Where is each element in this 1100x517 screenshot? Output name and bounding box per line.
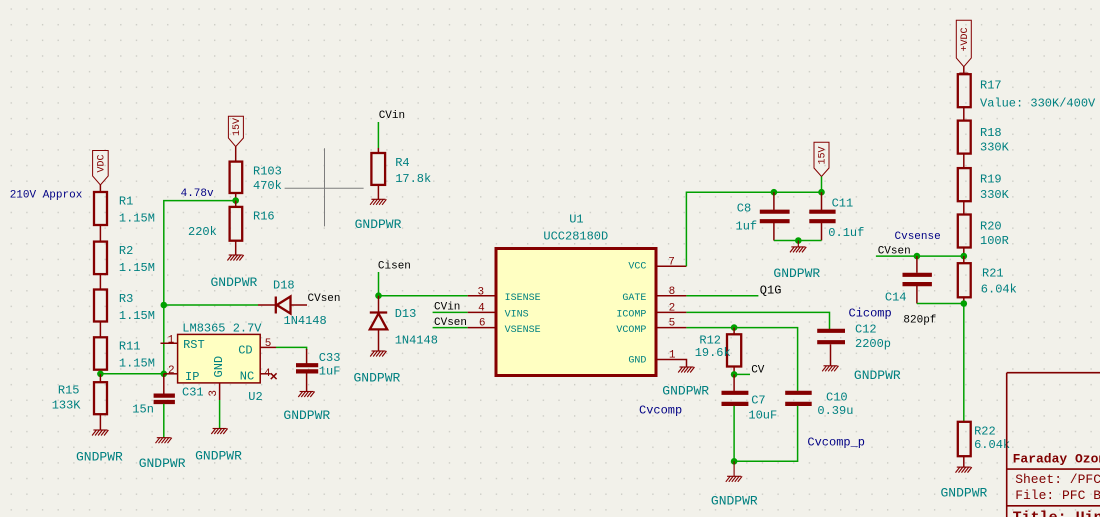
svg-text:R18: R18: [980, 126, 1002, 140]
U1 pin 6 VSENSE: [433, 317, 541, 336]
svg-text:R1: R1: [119, 195, 133, 209]
svg-text:File: PFC Board.sch: File: PFC Board.sch: [1015, 488, 1100, 503]
svg-text:CVin: CVin: [434, 301, 460, 313]
wire C8/C11 bottoms: [774, 240, 822, 242]
svg-text:R21: R21: [982, 267, 1004, 281]
resistor R16: [188, 201, 275, 255]
junction ground C8/C11: [795, 237, 802, 244]
svg-text:133K: 133K: [52, 399, 82, 413]
svg-text:C7: C7: [751, 393, 765, 407]
svg-text:GNDPWR: GNDPWR: [211, 275, 258, 290]
junction C8 top: [771, 189, 778, 196]
wire Cisen to D13/ISENSE: [378, 272, 380, 296]
svg-text:10uF: 10uF: [748, 408, 777, 422]
svg-text:Cvsense: Cvsense: [895, 231, 941, 243]
capacitor C31 15n: [132, 374, 203, 438]
svg-text:R4: R4: [395, 156, 409, 170]
svg-text:Sheet: /PFC Boost/: Sheet: /PFC Boost/: [1015, 472, 1100, 487]
resistor R12: [695, 328, 742, 375]
svg-text:UCC28180D: UCC28180D: [543, 229, 608, 243]
svg-text:1.15M: 1.15M: [119, 309, 155, 323]
U1 pin 3 ISENSE: [468, 286, 541, 304]
U2 pin 3 GND: [208, 356, 226, 429]
svg-text:NC: NC: [240, 370, 254, 384]
svg-text:ICOMP: ICOMP: [616, 310, 646, 321]
U2 pin 1 RST: [161, 335, 205, 353]
svg-text:5: 5: [669, 317, 676, 329]
svg-text:Cicomp: Cicomp: [849, 307, 892, 321]
resistor R20: [958, 215, 1009, 257]
svg-text:VCC: VCC: [628, 262, 646, 273]
svg-text:GNDPWR: GNDPWR: [854, 368, 901, 383]
svg-text:1.15M: 1.15M: [119, 261, 155, 275]
svg-text:1.15M: 1.15M: [119, 357, 155, 371]
svg-text:210V Approx: 210V Approx: [10, 190, 83, 202]
svg-text:1: 1: [669, 350, 676, 362]
svg-text:R2: R2: [119, 244, 133, 258]
svg-text:5: 5: [265, 338, 272, 350]
svg-text:Q1G: Q1G: [760, 284, 782, 298]
resistor R2: [94, 242, 155, 290]
U1 pin 5 VCOMP: [616, 317, 686, 336]
svg-text:220k: 220k: [188, 225, 217, 239]
svg-text:R11: R11: [119, 340, 141, 354]
svg-text:Cvcomp_p: Cvcomp_p: [807, 436, 865, 450]
ground GNDPWR under U2: [211, 429, 227, 435]
wire CVin to R4: [377, 122, 379, 148]
junction R103/R16: [232, 197, 239, 204]
svg-text:C33: C33: [319, 351, 341, 365]
svg-text:100R: 100R: [980, 234, 1009, 248]
ground GNDPWR under R16: [227, 255, 243, 261]
wire VCOMP to C10: [686, 328, 797, 391]
svg-text:CVin: CVin: [379, 110, 405, 122]
svg-text:GNDPWR: GNDPWR: [711, 494, 758, 509]
svg-text:330K: 330K: [980, 141, 1010, 155]
svg-text:3: 3: [478, 286, 485, 298]
resistor R18: [958, 121, 1010, 169]
wire CVsen net: [876, 255, 964, 257]
svg-text:GNDPWR: GNDPWR: [139, 456, 186, 471]
U1 pin 8 GATE: [622, 286, 686, 304]
svg-text:GND: GND: [628, 356, 646, 367]
svg-text:15V: 15V: [818, 146, 829, 164]
ground GNDPWR under C8/C11: [790, 241, 806, 253]
resistor R3: [94, 290, 155, 338]
svg-text:1N4148: 1N4148: [284, 314, 327, 328]
junction VCOMP/R12: [731, 324, 738, 331]
wire 15V stem: [821, 177, 823, 193]
svg-text:VSENSE: VSENSE: [505, 325, 541, 336]
svg-text:R20: R20: [980, 220, 1002, 234]
diode D18 1N4148: [258, 279, 327, 329]
svg-text:7: 7: [668, 256, 675, 268]
U2 pin 5 CD: [238, 338, 276, 357]
svg-text:17.8k: 17.8k: [395, 172, 431, 186]
svg-text:Cvcomp: Cvcomp: [639, 403, 682, 417]
capacitor C33 1uF: [296, 349, 340, 392]
junction at RST row: [161, 302, 168, 309]
wire CD to C33: [276, 347, 307, 350]
ground GNDPWR under D13: [370, 351, 386, 357]
svg-text:6.04k: 6.04k: [981, 283, 1017, 297]
svg-text:R16: R16: [253, 210, 275, 224]
ground GNDPWR under C33: [298, 392, 314, 398]
svg-text:GND: GND: [212, 356, 226, 378]
wire 4.78v node vertical: [164, 201, 236, 374]
U1 pin 4 VINS: [433, 301, 529, 320]
svg-text:D18: D18: [273, 279, 295, 293]
U2 pin 4 NC with no-connect X: [240, 368, 277, 384]
capacitor C7 10uF: [722, 374, 778, 461]
svg-text:D13: D13: [395, 307, 417, 321]
resistor R1: [94, 185, 155, 242]
svg-text:2: 2: [669, 302, 676, 314]
svg-text:GNDPWR: GNDPWR: [283, 408, 330, 423]
svg-text:R22: R22: [974, 424, 996, 438]
resistor R11: [94, 337, 155, 374]
svg-text:Title: Uin: Title: Uin: [1013, 510, 1100, 517]
capacitor C14 820pf: [885, 256, 937, 326]
svg-text:0.1uf: 0.1uf: [828, 226, 864, 240]
svg-text:C8: C8: [737, 202, 751, 216]
svg-text:6.04k: 6.04k: [974, 438, 1010, 452]
IC U2 LM8365 body: [178, 334, 261, 383]
capacitor C12 2200p: [817, 323, 891, 366]
resistor R21: [958, 256, 1017, 303]
svg-text:VCOMP: VCOMP: [616, 325, 646, 336]
svg-text:GNDPWR: GNDPWR: [76, 449, 123, 464]
svg-text:2200p: 2200p: [855, 337, 891, 351]
svg-text:GNDPWR: GNDPWR: [195, 448, 242, 463]
resistor R19: [958, 168, 1010, 214]
svg-text:4: 4: [478, 303, 485, 315]
resistor R15: [52, 374, 107, 430]
title block frame: [1007, 373, 1100, 517]
svg-text:4.78v: 4.78v: [181, 188, 214, 200]
junction C11 top: [818, 189, 825, 196]
svg-text:820pf: 820pf: [903, 314, 936, 326]
resistor R22: [958, 422, 1010, 467]
junction CV node: [731, 371, 738, 378]
svg-text:Faraday Ozone: Faraday Ozone: [1013, 452, 1100, 467]
svg-text:GNDPWR: GNDPWR: [941, 486, 988, 501]
resistor R103: [230, 147, 282, 201]
svg-text:GNDPWR: GNDPWR: [773, 266, 820, 281]
ground GNDPWR under R22: [956, 467, 972, 473]
svg-text:15V: 15V: [232, 118, 243, 136]
svg-text:Value: 330K/400V: Value: 330K/400V: [980, 97, 1096, 111]
wire R11/R15 junction to U2 IP: [100, 373, 163, 375]
svg-text:19.6k: 19.6k: [695, 346, 731, 360]
svg-text:RST: RST: [183, 338, 205, 352]
svg-text:U1: U1: [569, 213, 583, 227]
svg-text:R17: R17: [980, 79, 1002, 93]
U2 pin 2 IP: [164, 365, 200, 384]
junction C14 top: [914, 253, 921, 260]
svg-text:1uf: 1uf: [736, 219, 758, 233]
svg-text:GATE: GATE: [622, 293, 646, 304]
svg-text:U2: U2: [248, 390, 262, 404]
wire VCC rail: [686, 192, 821, 266]
U1 pin 1 GND: [628, 350, 686, 368]
junction D13: [375, 292, 382, 299]
svg-text:GNDPWR: GNDPWR: [662, 384, 709, 399]
svg-text:R19: R19: [980, 173, 1002, 187]
junction C7 bottom: [731, 458, 738, 465]
diode D13 1N4148: [370, 296, 438, 351]
svg-text:CV: CV: [751, 365, 765, 377]
power symbol 15V: [228, 116, 243, 146]
svg-text:C12: C12: [855, 323, 877, 337]
wire to D18: [164, 304, 258, 306]
svg-text:GNDPWR: GNDPWR: [354, 370, 401, 385]
svg-text:6: 6: [479, 318, 486, 330]
svg-text:+VDC: +VDC: [960, 27, 971, 51]
cursor crosshair: [285, 148, 364, 226]
svg-text:R15: R15: [58, 384, 80, 398]
ground GNDPWR under R15: [92, 430, 108, 436]
U1 pin 7 VCC: [628, 256, 686, 272]
svg-text:8: 8: [669, 286, 676, 298]
svg-text:R3: R3: [119, 292, 133, 306]
svg-text:1: 1: [168, 335, 175, 347]
svg-text:IP: IP: [185, 370, 199, 384]
power symbol VDC: [93, 151, 109, 186]
ground GNDPWR under C12: [822, 366, 838, 372]
svg-text:3: 3: [208, 390, 220, 397]
svg-text:1N4148: 1N4148: [395, 333, 438, 347]
wire down to R22: [963, 304, 965, 422]
power symbol +VDC: [956, 20, 971, 66]
svg-text:CD: CD: [238, 344, 252, 358]
svg-text:4: 4: [264, 368, 271, 380]
wire to ISENSE pin: [379, 295, 468, 297]
junction at IP row: [161, 371, 168, 378]
svg-text:15n: 15n: [132, 403, 154, 417]
wire GATE to Q1G: [686, 295, 758, 297]
svg-text:R103: R103: [253, 165, 282, 179]
power symbol 15V (VCC rail): [814, 142, 829, 176]
ground GNDPWR under C7: [726, 461, 742, 482]
svg-text:GNDPWR: GNDPWR: [355, 217, 402, 232]
junction R20/R21: [961, 253, 968, 260]
svg-text:CVsen: CVsen: [308, 293, 341, 305]
wire CV stub: [734, 373, 750, 375]
resistor R4: [371, 148, 431, 199]
svg-text:330K: 330K: [980, 188, 1010, 202]
svg-text:VDC: VDC: [97, 154, 108, 172]
U1 pin 2 ICOMP: [616, 302, 686, 320]
svg-text:LM8365 2.7V: LM8365 2.7V: [182, 321, 262, 335]
capacitor C8 1uf: [736, 192, 790, 240]
ground GNDPWR under U1 pin 1: [678, 367, 694, 373]
capacitor C11 0.1uf: [809, 192, 864, 240]
ground GNDPWR under R4: [370, 199, 386, 205]
wire C14 bottom to R21 bottom: [917, 303, 964, 305]
svg-text:ISENSE: ISENSE: [505, 293, 541, 304]
svg-text:470k: 470k: [253, 179, 282, 193]
svg-text:C11: C11: [832, 196, 854, 210]
svg-text:C10: C10: [826, 391, 848, 405]
junction R11/R15: [97, 371, 104, 378]
svg-text:C14: C14: [885, 290, 907, 304]
svg-text:0.39u: 0.39u: [817, 404, 853, 418]
junction R21/R22: [961, 300, 968, 307]
svg-text:1.15M: 1.15M: [119, 212, 155, 226]
capacitor C10 0.39u: [734, 391, 853, 462]
resistor R17: [958, 67, 1096, 121]
wire ICOMP to C12: [686, 312, 829, 329]
svg-text:VINS: VINS: [505, 310, 529, 321]
svg-text:Cisen: Cisen: [378, 260, 411, 272]
op-amp/controller U1 UCC28180D body: [496, 249, 656, 376]
svg-text:1uF: 1uF: [319, 365, 341, 379]
ground GNDPWR under C31: [156, 438, 172, 444]
svg-text:2: 2: [168, 365, 175, 377]
svg-text:C31: C31: [182, 386, 204, 400]
